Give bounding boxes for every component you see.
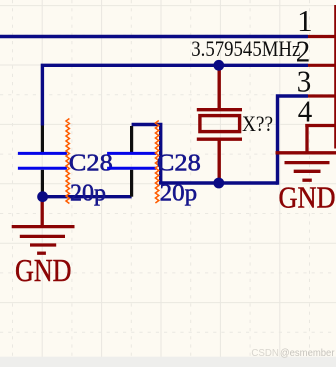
- pin 3 stub: [308, 94, 336, 97]
- wire net XTAL2 (second horizontal with left drop to C28a): [42, 65, 308, 125]
- crystal value 3.579545MHz label: [191, 36, 300, 61]
- junction node C (C28a bottom / GND): [37, 191, 48, 202]
- svg-text:X??: X??: [242, 111, 273, 136]
- svg-text:4: 4: [298, 94, 313, 129]
- pin number 4: [298, 94, 313, 129]
- error marker zigzag (left C28): [66, 119, 69, 204]
- watermark (decorative): [251, 347, 335, 359]
- pin number 3: [297, 63, 312, 98]
- svg-text:@esmember: @esmember: [280, 347, 335, 359]
- pin number 1: [297, 3, 313, 38]
- ground symbol GND right: [276, 124, 336, 180]
- C28 right value 20p label: [160, 179, 198, 206]
- capacitor C28 (right): [107, 126, 156, 197]
- wire crystal-bottom net (C28b top link, elbow, to node B): [132, 125, 278, 184]
- svg-text:C28: C28: [157, 149, 201, 176]
- crystal designator X?? label: [242, 111, 273, 136]
- wire pin3 net (elbow down right side): [278, 96, 309, 185]
- GND right net label: [279, 181, 336, 215]
- bottom status strip (decorative): [0, 357, 336, 367]
- svg-text:GND: GND: [15, 253, 72, 288]
- svg-text:C28: C28: [69, 149, 113, 176]
- pin number 2: [296, 34, 311, 69]
- connector body edge: [334, 5, 336, 149]
- svg-text:3.579545MHz: 3.579545MHz: [191, 36, 300, 61]
- svg-text:20p: 20p: [160, 179, 198, 206]
- C28 left designator label: [69, 149, 113, 176]
- error marker zigzag (right C28): [155, 121, 158, 204]
- pin 1 stub: [308, 35, 336, 38]
- junction node B (crystal bottom): [213, 178, 224, 189]
- pin 4 stub: [305, 124, 336, 127]
- junction node A (XTAL2 / crystal top): [213, 60, 224, 71]
- svg-text:CSDN: CSDN: [251, 347, 279, 359]
- C28 left value 20p label: [70, 179, 106, 206]
- pin 2 stub: [308, 64, 336, 67]
- GND left net label: [15, 253, 72, 288]
- wire net XTAL1 (top horizontal): [0, 35, 308, 38]
- wire cap-bottom net (node C to C28b bottom pin): [42, 195, 131, 198]
- crystal X??: [197, 65, 242, 179]
- svg-text:20p: 20p: [70, 179, 106, 206]
- C28 right designator label: [157, 149, 201, 176]
- capacitor C28 (left): [18, 126, 67, 194]
- ground symbol GND left: [12, 199, 75, 254]
- svg-text:GND: GND: [279, 181, 336, 215]
